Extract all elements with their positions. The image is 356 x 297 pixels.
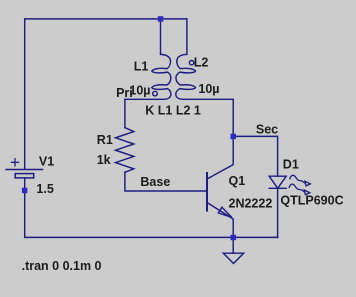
svg-text:Sec: Sec bbox=[256, 122, 278, 136]
junction collector node bbox=[231, 134, 237, 140]
inductor L2 bbox=[176, 54, 233, 99]
battery V1 bbox=[6, 159, 43, 178]
svg-text:QTLP690C: QTLP690C bbox=[280, 194, 343, 208]
wire top rail bbox=[25, 19, 187, 54]
wire bottom rail bbox=[25, 236, 278, 238]
svg-text:1.5: 1.5 bbox=[36, 182, 53, 196]
wire L2 bottom to junction bbox=[232, 99, 234, 136]
svg-text:V1: V1 bbox=[39, 155, 54, 169]
svg-text:K L1 L2 1: K L1 L2 1 bbox=[145, 104, 201, 118]
resistor R1 bbox=[116, 128, 134, 173]
diode D1 (LED) bbox=[269, 176, 286, 188]
LED light arrow 2 bbox=[289, 184, 310, 195]
wire R1 top bbox=[124, 99, 126, 127]
wire left rail lower bbox=[24, 178, 26, 237]
svg-text:R1: R1 bbox=[97, 133, 113, 147]
transistor Q1 bbox=[207, 136, 233, 237]
junction battery bbox=[22, 188, 28, 194]
ground bbox=[223, 253, 243, 263]
wire LED bottom bbox=[277, 188, 279, 237]
wire L1 top stub bbox=[160, 19, 162, 54]
svg-text:L1: L1 bbox=[134, 59, 149, 73]
svg-text:Q1: Q1 bbox=[229, 174, 246, 188]
svg-text:10µ: 10µ bbox=[198, 82, 219, 96]
svg-text:2N2222: 2N2222 bbox=[229, 197, 273, 211]
svg-text:D1: D1 bbox=[283, 158, 299, 172]
wire left rail upper bbox=[24, 19, 26, 169]
LED light arrow 1 bbox=[290, 175, 311, 186]
svg-text:Pri: Pri bbox=[116, 86, 133, 100]
svg-text:Base: Base bbox=[140, 175, 170, 189]
inductor L1 bbox=[125, 54, 171, 99]
phase dot L2 bbox=[189, 61, 193, 65]
svg-text:1k: 1k bbox=[97, 153, 111, 167]
wire ground stub bbox=[232, 237, 234, 253]
junction emitter node bbox=[231, 235, 237, 241]
wire sec bbox=[233, 136, 277, 176]
phase dot L1 bbox=[153, 91, 158, 96]
svg-text:.tran 0 0.1m 0: .tran 0 0.1m 0 bbox=[22, 259, 102, 273]
svg-text:L2: L2 bbox=[194, 55, 209, 69]
wire base bbox=[125, 172, 207, 191]
junction top bbox=[158, 16, 164, 22]
